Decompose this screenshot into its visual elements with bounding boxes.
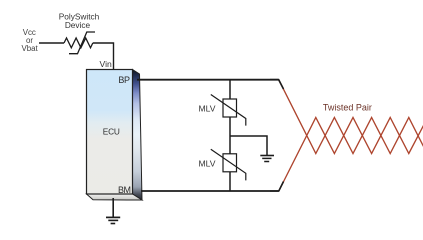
svg-text:Device: Device: [65, 20, 91, 30]
twisted pair wire B: [279, 118, 423, 192]
wire Vcc to PolySwitch: [39, 42, 64, 44]
wire PolySwitch to Vin pin: [93, 43, 114, 70]
varistor MLV2 diagonal: [211, 149, 246, 180]
varistor MLV1 body: [223, 99, 237, 117]
wire bend BM to pair black cap: [270, 182, 284, 192]
svg-text:BP: BP: [118, 75, 130, 85]
wire junction to signal ground: [230, 136, 267, 155]
ECU box front face: [87, 70, 133, 195]
svg-text:Vin: Vin: [100, 59, 112, 69]
svg-text:Twisted Pair: Twisted Pair: [323, 103, 372, 113]
wire BM bus (bottom): [141, 190, 279, 192]
varistor MLV1 diagonal: [211, 95, 246, 126]
polyswitch thermistor strike line: [69, 32, 95, 54]
svg-text:BM: BM: [118, 185, 131, 195]
svg-text:MLV: MLV: [199, 104, 216, 114]
varistor MLV2 body: [223, 154, 237, 172]
svg-text:Vbat: Vbat: [21, 44, 38, 53]
ground under ECU: [106, 198, 120, 224]
twisted pair wire A: [279, 80, 423, 154]
wire bend BP to pair black cap: [270, 80, 284, 89]
ECU box side face: [133, 70, 143, 201]
ground at MLV junction: [260, 156, 274, 162]
ECU box bottom face: [87, 194, 143, 200]
wire BP bus (top): [137, 79, 279, 81]
svg-text:MLV: MLV: [199, 158, 216, 168]
svg-text:ECU: ECU: [103, 127, 120, 137]
wire MLV chain vertical: [229, 80, 231, 191]
polyswitch device RT1 zigzag: [64, 38, 93, 48]
label PolySwitch Device: [59, 11, 100, 30]
node Vcc/Vbat supply label: [21, 28, 38, 53]
